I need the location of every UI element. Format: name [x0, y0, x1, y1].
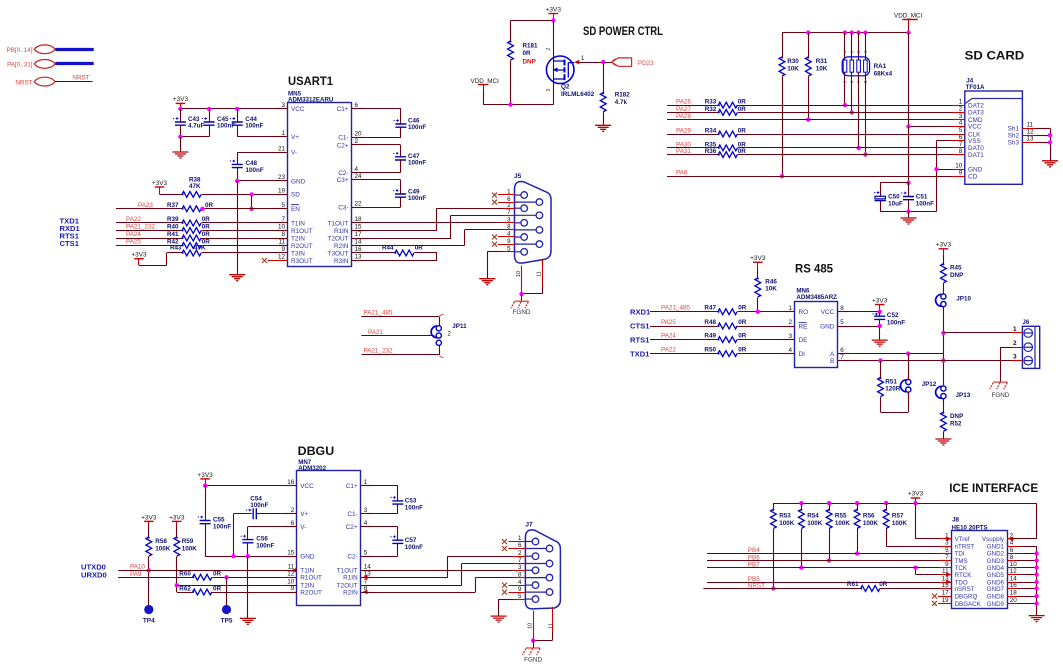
- svg-text:R54: R54: [807, 513, 819, 520]
- J4 shield pin Sh2: [1022, 135, 1036, 137]
- J4 pin 7 DAT0: [953, 147, 965, 149]
- junction: [827, 558, 831, 562]
- svg-text:Q2: Q2: [561, 84, 570, 91]
- svg-text:1: 1: [281, 130, 285, 137]
- junction: [771, 586, 775, 590]
- junction: [843, 103, 847, 107]
- wire GND row: [237, 180, 287, 182]
- J4 pin 10 GND: [953, 169, 965, 171]
- J7 pin circle 6: [525, 548, 546, 550]
- MN7 pin 9 R2OUT: [285, 592, 297, 594]
- svg-text:R31: R31: [816, 58, 828, 65]
- junction: [200, 207, 204, 211]
- J5 pin stub: [503, 229, 515, 231]
- wire J7 pin5 to ground: [499, 599, 513, 601]
- svg-text:R49: R49: [704, 332, 716, 339]
- svg-text:9: 9: [959, 169, 963, 176]
- svg-text:2: 2: [788, 319, 792, 326]
- J5 pin stub: [503, 222, 515, 224]
- MN5 pin 16 T3OUT: [352, 252, 364, 254]
- junction: [906, 124, 910, 128]
- no-connect R3OUT: [268, 260, 288, 262]
- junction: [249, 192, 253, 196]
- junction: [855, 551, 859, 555]
- MN5 pin 23 GND: [276, 180, 288, 182]
- svg-text:9: 9: [291, 585, 295, 592]
- svg-text:0R: 0R: [738, 99, 747, 106]
- svg-text:R1IN: R1IN: [343, 575, 358, 582]
- J6 pin 3: [1024, 356, 1033, 365]
- wire SD-EN tie: [251, 194, 253, 208]
- MN7 pin 7 T2OUT: [361, 585, 373, 587]
- wire VCC row: [838, 311, 880, 313]
- resistor R57 100K: [886, 503, 888, 509]
- svg-text:100nF: 100nF: [408, 124, 426, 131]
- wire GND row: [1017, 567, 1037, 569]
- ground (under C43): [180, 137, 182, 152]
- MN7 pin 13 R1IN: [361, 577, 373, 579]
- no-connect J7 pin4: [502, 583, 507, 588]
- wire +3V3 to R43: [139, 265, 167, 267]
- wire C54 to gnd rail: [233, 514, 235, 556]
- svg-text:+3V3: +3V3: [173, 96, 189, 103]
- svg-text:PA25: PA25: [661, 319, 676, 326]
- svg-text:PA[0..31]: PA[0..31]: [7, 62, 33, 69]
- no-connect DBGRQ: [938, 596, 951, 598]
- J4 shield pin Sh3: [1022, 142, 1036, 144]
- svg-text:+3V3: +3V3: [546, 6, 562, 13]
- svg-text:C53: C53: [405, 498, 417, 505]
- svg-text:PA6: PA6: [676, 170, 688, 177]
- svg-text:CTS1: CTS1: [630, 322, 650, 331]
- junction: [855, 501, 859, 505]
- J6 pin 2: [1024, 343, 1033, 352]
- svg-text:CTS1: CTS1: [60, 239, 80, 248]
- svg-text:VCC: VCC: [291, 106, 305, 113]
- MN5 pin 6 C1+: [352, 108, 364, 110]
- bus entry PA[0..31]: [34, 60, 55, 69]
- svg-text:C2+: C2+: [337, 142, 349, 149]
- svg-text:R53: R53: [779, 513, 791, 520]
- ground (J7 pin5): [491, 616, 507, 622]
- junction: [1034, 594, 1038, 598]
- svg-text:100K: 100K: [155, 546, 171, 553]
- junction: [843, 30, 847, 34]
- junction: [799, 501, 803, 505]
- wire VTref: [915, 503, 917, 539]
- svg-text:0R: 0R: [738, 106, 747, 113]
- J7 pin circle 2: [525, 555, 532, 557]
- J7 pin stub: [513, 577, 525, 579]
- wire GND row: [1017, 596, 1037, 598]
- resistor R45 DNP: [941, 264, 947, 283]
- svg-text:8: 8: [1010, 554, 1014, 561]
- svg-text:C1-: C1-: [347, 511, 357, 518]
- svg-text:URXD0: URXD0: [81, 571, 107, 580]
- svg-text:JP13: JP13: [956, 392, 971, 399]
- svg-text:10K: 10K: [816, 66, 828, 73]
- svg-text:DE: DE: [799, 337, 808, 344]
- svg-text:4: 4: [959, 120, 963, 127]
- MN7 pin 11 T1IN: [285, 570, 297, 572]
- svg-text:ADM3485ARZ: ADM3485ARZ: [796, 294, 837, 301]
- J7 pin circle 3: [525, 569, 532, 571]
- svg-text:+3V3: +3V3: [197, 472, 213, 479]
- svg-text:0R: 0R: [738, 319, 747, 326]
- svg-text:PA10: PA10: [130, 563, 145, 570]
- bus PB thick blue: [55, 48, 93, 51]
- wire GND down: [237, 181, 239, 275]
- ground (J4 shields): [1042, 161, 1058, 167]
- no-connect J5 pin1: [492, 193, 497, 198]
- svg-text:18: 18: [1010, 590, 1018, 597]
- J5 pin circle 2: [515, 207, 522, 209]
- wire T2OUT to J5 pin7: [352, 238, 451, 240]
- testpoint TP4: [144, 605, 153, 614]
- junction: [906, 181, 910, 185]
- no-connect J5 pin9: [492, 242, 497, 247]
- no-connect DBGACK: [938, 603, 951, 605]
- wire R44 to R3IN: [414, 252, 437, 254]
- junction: [508, 102, 512, 106]
- J5 pin circle 1: [515, 194, 522, 196]
- svg-text:R2OUT: R2OUT: [291, 243, 313, 250]
- svg-text:+3V3: +3V3: [750, 255, 766, 262]
- power +3V3 (SD power): [549, 13, 559, 15]
- MN7 pin 3 C1-: [361, 513, 373, 515]
- svg-text:RTCK: RTCK: [955, 572, 973, 579]
- J5 pin circle 5: [515, 251, 522, 253]
- J7 pin stub: [513, 599, 525, 601]
- bus entry PB[0..14]: [34, 45, 55, 54]
- J5 pin circle 4: [515, 236, 522, 238]
- svg-text:T1OUT: T1OUT: [337, 568, 358, 575]
- svg-text:PA24: PA24: [126, 231, 141, 238]
- svg-text:0R: 0R: [523, 50, 532, 57]
- J4 shield pin Sh1: [1022, 128, 1036, 130]
- svg-text:T2IN: T2IN: [291, 235, 305, 242]
- J5 pin stub: [503, 215, 515, 217]
- MN7 pin 15 GND: [285, 556, 297, 558]
- svg-text:1: 1: [959, 98, 963, 105]
- wire R53 to NRST row: [773, 529, 775, 589]
- svg-text:R181: R181: [523, 43, 539, 50]
- svg-text:12: 12: [1027, 128, 1035, 135]
- J4 pin 9 CD: [953, 176, 965, 178]
- MN7 pin 6 V-: [285, 526, 297, 528]
- wire R2IN to J7 pin8: [361, 592, 475, 594]
- svg-text:100nF: 100nF: [887, 319, 905, 326]
- svg-text:PA25: PA25: [126, 239, 141, 246]
- MN5 pin 9 T3IN: [276, 252, 288, 254]
- svg-text:C2-: C2-: [347, 554, 357, 561]
- wire GND row 20: [1017, 603, 1037, 605]
- svg-text:0R: 0R: [738, 127, 747, 134]
- MN6 pin 8 VCC: [838, 311, 850, 313]
- svg-text:10uF: 10uF: [888, 201, 903, 208]
- svg-text:16: 16: [1010, 582, 1018, 589]
- svg-text:GND9: GND9: [987, 601, 1005, 608]
- J5 pin stub: [503, 251, 515, 253]
- junction: [906, 351, 910, 355]
- power +3V3 (MN7 VCC): [200, 478, 210, 480]
- svg-text:8: 8: [959, 148, 963, 155]
- junction: [884, 501, 888, 505]
- svg-text:19: 19: [278, 188, 286, 195]
- wire T1OUT to J7 pin3: [361, 570, 525, 572]
- svg-text:5: 5: [945, 547, 949, 554]
- svg-text:C51: C51: [916, 194, 928, 201]
- junction: [224, 575, 228, 579]
- wire R51 to JP12: [881, 412, 909, 414]
- junction: [235, 179, 239, 183]
- junction: [1048, 133, 1052, 137]
- svg-text:RE: RE: [799, 323, 808, 330]
- J8 pin 10 GND4: [1007, 567, 1017, 569]
- svg-text:DBGU: DBGU: [298, 444, 335, 458]
- wire cap ground rail: [880, 211, 937, 213]
- junction: [906, 209, 910, 213]
- MN5 pin 13 R3IN: [352, 260, 364, 262]
- capacitor C50 10uF: [880, 182, 909, 184]
- svg-text:PA21_485: PA21_485: [661, 305, 690, 312]
- capacitor C55 100nF: [205, 486, 207, 521]
- svg-text:GND1: GND1: [987, 544, 1005, 551]
- svg-text:R60: R60: [179, 571, 191, 578]
- svg-text:GND: GND: [291, 178, 306, 185]
- MN6 pin 4 DI: [783, 353, 795, 355]
- junction: [850, 110, 854, 114]
- svg-text:PA23: PA23: [138, 202, 153, 209]
- svg-text:100K: 100K: [892, 520, 908, 527]
- J5 pin stub (nc): [498, 236, 515, 238]
- svg-text:EN: EN: [291, 206, 300, 213]
- wire gate to PD23: [574, 60, 579, 65]
- junction: [1034, 558, 1038, 562]
- svg-text:PA29: PA29: [676, 127, 691, 134]
- junction: [235, 107, 239, 111]
- svg-text:PA21_232: PA21_232: [126, 224, 155, 231]
- junction: [175, 583, 179, 587]
- no-connect J7 pin1: [502, 539, 507, 544]
- MN6 pin 7 B: [838, 360, 850, 362]
- resistor R30 10K: [782, 33, 784, 57]
- junction: [246, 554, 250, 558]
- wire C44 to V+: [237, 136, 287, 138]
- svg-text:7: 7: [840, 354, 844, 361]
- J5 pin circle 9: [515, 243, 537, 245]
- svg-text:C50: C50: [888, 194, 900, 201]
- junction: [878, 310, 882, 314]
- svg-text:J7: J7: [525, 521, 533, 528]
- svg-text:17: 17: [355, 231, 363, 238]
- MN5 pin 24 C3+: [352, 179, 364, 181]
- resistor R44 0R: [352, 252, 395, 254]
- J5 pin circle 3: [515, 222, 522, 224]
- MN5 pin 4 C2-: [352, 172, 364, 174]
- J7 pin circle 4: [525, 584, 532, 586]
- svg-text:nSRST: nSRST: [955, 586, 975, 593]
- svg-text:C52: C52: [887, 312, 899, 319]
- svg-text:R182: R182: [615, 92, 631, 99]
- J7 pin stub (nc): [509, 585, 526, 587]
- junction: [531, 638, 535, 642]
- jumper JP11: [431, 326, 441, 346]
- svg-text:3: 3: [546, 89, 552, 92]
- svg-text:13: 13: [1027, 136, 1035, 143]
- junction: [856, 146, 860, 150]
- svg-text:PB[0..14]: PB[0..14]: [7, 47, 33, 54]
- svg-text:SD: SD: [291, 192, 300, 199]
- junction: [756, 310, 760, 314]
- junction: [1034, 572, 1038, 576]
- svg-text:16: 16: [287, 479, 295, 486]
- MN7 pin 16 VCC: [285, 485, 297, 487]
- svg-text:5: 5: [840, 319, 844, 326]
- wire R57 to nTRST: [886, 529, 888, 546]
- svg-text:R56: R56: [863, 513, 875, 520]
- MN5 pin 1 V+: [276, 136, 288, 138]
- MN7 pin 8 R2IN: [361, 592, 373, 594]
- wire R2IN to J5 pin8: [352, 245, 465, 247]
- no-connect J5 pin4: [492, 235, 497, 240]
- svg-text:10: 10: [528, 623, 534, 629]
- wire JP10 down: [943, 307, 945, 386]
- svg-text:R52: R52: [950, 421, 962, 428]
- svg-text:1: 1: [364, 479, 368, 486]
- wire VDD_MCI down to caps: [908, 126, 910, 183]
- svg-text:R40: R40: [167, 224, 179, 231]
- J5 pin stub: [503, 208, 515, 210]
- svg-text:R3IN: R3IN: [334, 258, 349, 265]
- resistor R52 DNP: [943, 399, 945, 412]
- svg-text:14: 14: [355, 239, 363, 246]
- junction: [178, 107, 182, 111]
- svg-text:0R: 0R: [415, 244, 424, 251]
- svg-text:TXD1: TXD1: [630, 349, 650, 358]
- svg-text:FGND: FGND: [513, 309, 531, 316]
- svg-text:100nF: 100nF: [245, 123, 263, 130]
- wire gnd stem: [247, 556, 249, 618]
- junction: [850, 30, 854, 34]
- wire J5 pin5 to ground: [487, 251, 503, 253]
- svg-text:R32: R32: [705, 106, 717, 113]
- J5 pin circle 8: [515, 229, 537, 231]
- MN5 pin 2 C2+: [352, 144, 364, 146]
- svg-text:VCC: VCC: [300, 483, 314, 490]
- svg-text:10: 10: [278, 224, 286, 231]
- svg-text:2: 2: [959, 106, 963, 113]
- svg-text:R1OUT: R1OUT: [291, 228, 313, 235]
- wire V- row: [248, 526, 297, 528]
- wire GND rail: [205, 556, 297, 558]
- svg-text:R41: R41: [167, 231, 179, 238]
- resistor R31 10K: [808, 33, 810, 57]
- svg-text:100K: 100K: [835, 520, 851, 527]
- testpoint TP5: [226, 577, 228, 605]
- junction: [147, 568, 151, 572]
- MN5 pin 18 T1OUT: [352, 222, 364, 224]
- wire GND row: [1017, 560, 1037, 562]
- J7 pin circle 7: [525, 563, 546, 565]
- svg-text:0R: 0R: [205, 202, 214, 209]
- svg-text:DBGACK: DBGACK: [955, 601, 982, 608]
- svg-text:100nF: 100nF: [405, 505, 423, 512]
- wire TCK-RTCK tie: [915, 568, 917, 575]
- svg-text:T3IN: T3IN: [291, 250, 305, 257]
- J7 pin stub (nc): [509, 548, 526, 550]
- svg-text:15: 15: [287, 549, 295, 556]
- power +3V3 (R38): [155, 186, 165, 188]
- svg-text:T1IN: T1IN: [291, 220, 305, 227]
- svg-text:21: 21: [278, 146, 286, 153]
- svg-text:J5: J5: [514, 173, 522, 180]
- svg-text:ICE INTERFACE: ICE INTERFACE: [949, 481, 1038, 495]
- svg-text:PA22: PA22: [661, 346, 676, 353]
- J8 pin 20 GND9: [1007, 603, 1017, 605]
- junction: [551, 18, 555, 22]
- svg-text:22: 22: [355, 201, 363, 208]
- capacitor C51 100nF: [908, 183, 910, 197]
- capacitor C56 100nF: [247, 527, 249, 540]
- svg-text:7: 7: [945, 554, 949, 561]
- junction: [934, 167, 938, 171]
- junction: [863, 152, 867, 156]
- junction: [203, 483, 207, 487]
- svg-text:0R: 0R: [213, 571, 222, 578]
- svg-text:100nF: 100nF: [405, 544, 423, 551]
- MN7 pin 14 T1OUT: [361, 570, 373, 572]
- J4 pin 1 DAT2: [953, 105, 965, 107]
- svg-text:SD CARD: SD CARD: [965, 49, 1025, 63]
- svg-text:100K: 100K: [182, 546, 198, 553]
- svg-text:2: 2: [518, 550, 522, 557]
- svg-text:GND5: GND5: [987, 572, 1005, 579]
- MN7 pin 5 C2-: [361, 556, 373, 558]
- J4 pin 2 DAT3: [953, 112, 965, 114]
- svg-text:TP4: TP4: [143, 618, 155, 625]
- wire VCC row: [205, 485, 297, 487]
- svg-text:C1+: C1+: [346, 483, 358, 490]
- wire V- loop: [237, 152, 287, 154]
- svg-text:DNP: DNP: [950, 413, 963, 420]
- svg-text:C3-: C3-: [338, 205, 348, 212]
- svg-text:SD POWER CTRL: SD POWER CTRL: [583, 24, 663, 38]
- svg-text:R45: R45: [950, 265, 962, 272]
- svg-text:GND2: GND2: [987, 551, 1005, 558]
- svg-text:A: A: [830, 351, 835, 358]
- J8 pin 4 GND1: [1007, 546, 1017, 548]
- junction: [856, 30, 860, 34]
- power +3V3 (R59): [172, 520, 182, 522]
- no-connect J5 pin6: [492, 200, 497, 205]
- MN5 pin 12 R3OUT: [276, 260, 288, 262]
- wire R55 to TMS row: [829, 529, 831, 561]
- MN5 pin 7 T1IN: [276, 222, 288, 224]
- J4 pin 8 DAT1: [953, 154, 965, 156]
- resistor R59 100K: [174, 537, 180, 556]
- svg-text:RXD1: RXD1: [630, 307, 651, 316]
- svg-text:100nF: 100nF: [256, 543, 274, 550]
- wire J6 pin2 to FGND: [1000, 347, 1012, 349]
- svg-text:R46: R46: [765, 279, 777, 286]
- svg-text:VCC: VCC: [968, 124, 982, 131]
- capacitor C47 100nF: [352, 144, 401, 146]
- junction: [941, 331, 945, 335]
- resistor R46 10K: [755, 278, 761, 297]
- capacitor C52 100nF: [879, 312, 881, 317]
- MN5 pin 8 T2IN: [276, 238, 288, 240]
